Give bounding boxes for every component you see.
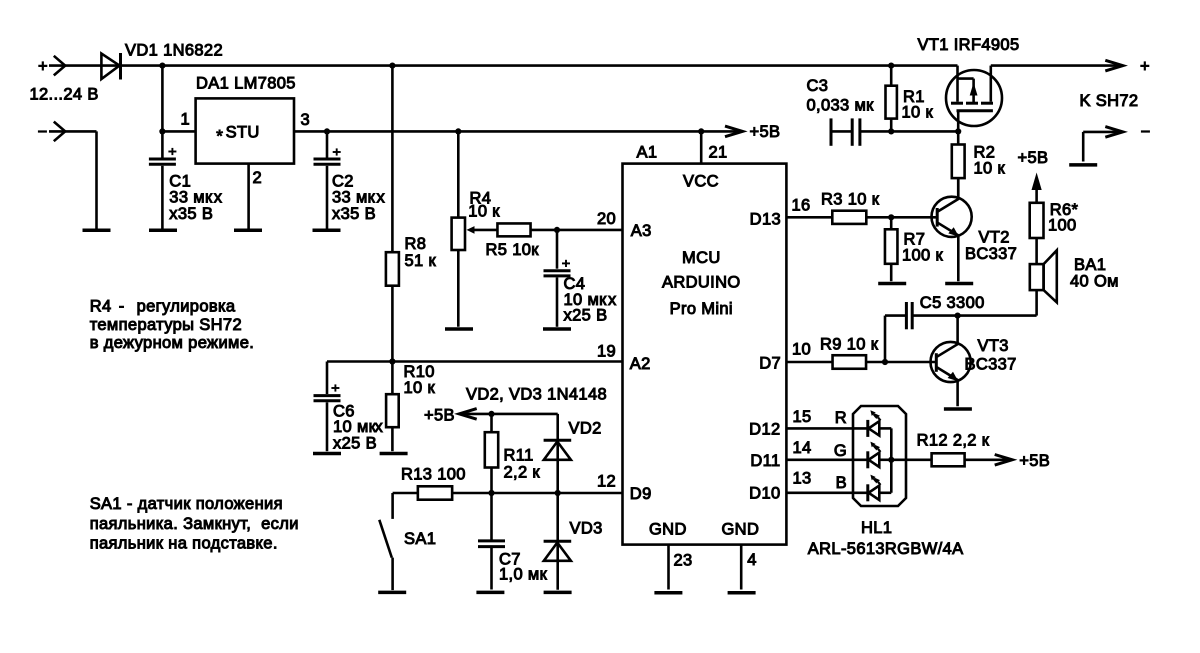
svg-text:D9: D9 <box>630 485 652 503</box>
svg-text:+: + <box>38 58 48 76</box>
svg-text:+5В: +5В <box>424 406 455 424</box>
svg-text:+5В: +5В <box>750 123 781 141</box>
svg-text:х: х <box>608 291 617 309</box>
svg-text:х25 В: х25 В <box>564 307 608 325</box>
svg-text:D11: D11 <box>750 452 780 470</box>
svg-text:A2: A2 <box>630 355 651 373</box>
svg-text:R13 100: R13 100 <box>401 466 466 484</box>
svg-text:BA1: BA1 <box>1074 256 1106 274</box>
svg-text:10: 10 <box>792 341 811 359</box>
svg-text:DA1 LM7805: DA1 LM7805 <box>196 75 296 93</box>
svg-text:температуры SH72: температуры SH72 <box>90 316 242 334</box>
svg-text:+5В: +5В <box>1018 149 1049 167</box>
svg-text:G: G <box>834 442 847 460</box>
svg-text:D10: D10 <box>749 485 780 503</box>
svg-text:STU: STU <box>226 124 260 142</box>
svg-text:VT3: VT3 <box>978 337 1009 355</box>
svg-text:100 к: 100 к <box>902 246 944 264</box>
svg-text:12: 12 <box>597 472 616 490</box>
svg-text:VD2: VD2 <box>569 420 602 438</box>
svg-text:A1: A1 <box>637 144 658 162</box>
svg-text:13: 13 <box>793 470 812 488</box>
svg-text:4: 4 <box>747 551 757 569</box>
svg-text:+: + <box>1140 58 1150 76</box>
svg-text:VT2: VT2 <box>979 229 1010 247</box>
svg-text:33 мк: 33 мк <box>332 189 376 207</box>
svg-text:VCC: VCC <box>683 173 719 191</box>
svg-text:х: х <box>375 418 384 436</box>
svg-text:+5В: +5В <box>1019 452 1050 470</box>
svg-text:R3 10 к: R3 10 к <box>821 190 880 208</box>
svg-text:K SH72: K SH72 <box>1080 92 1139 110</box>
svg-text:х25 В: х25 В <box>333 434 377 452</box>
svg-text:0,033 мк: 0,033 мк <box>807 97 875 115</box>
svg-text:VD1 1N6822: VD1 1N6822 <box>125 41 223 59</box>
svg-text:MCU: MCU <box>682 249 721 267</box>
svg-text:GND: GND <box>649 521 687 539</box>
svg-text:SA1 - датчик положения: SA1 - датчик положения <box>90 495 283 513</box>
svg-text:х: х <box>377 189 386 207</box>
svg-text:10 к: 10 к <box>468 202 500 220</box>
svg-text:GND: GND <box>722 521 760 539</box>
svg-text:BC337: BC337 <box>965 356 1017 374</box>
svg-text:2: 2 <box>253 169 263 187</box>
svg-text:HL1: HL1 <box>861 519 892 537</box>
svg-text:1,0 мк: 1,0 мк <box>499 566 548 584</box>
svg-text:R12 2,2 к: R12 2,2 к <box>917 432 990 450</box>
svg-text:20: 20 <box>597 210 616 228</box>
svg-text:ARDUINO: ARDUINO <box>662 274 741 292</box>
svg-text:B: B <box>836 474 847 492</box>
svg-text:-: - <box>119 298 125 316</box>
svg-text:3: 3 <box>301 111 311 129</box>
svg-text:R8: R8 <box>405 235 427 253</box>
svg-text:10 к: 10 к <box>902 104 934 122</box>
svg-text:Pro Mini: Pro Mini <box>670 300 733 318</box>
svg-text:R11: R11 <box>504 446 534 464</box>
svg-text:SA1: SA1 <box>404 530 436 548</box>
svg-text:14: 14 <box>793 439 812 457</box>
svg-text:1: 1 <box>180 110 190 128</box>
svg-text:16: 16 <box>792 197 811 215</box>
svg-text:10 мк: 10 мк <box>333 418 377 436</box>
svg-text:*: * <box>216 127 223 146</box>
svg-text:21: 21 <box>709 144 728 162</box>
svg-text:C5 3300: C5 3300 <box>920 294 985 312</box>
svg-text:х35 В: х35 В <box>332 205 376 223</box>
svg-text:10 к: 10 к <box>974 160 1006 178</box>
svg-text:х35 В: х35 В <box>169 205 213 223</box>
svg-text:паяльник на подставке.: паяльник на подставке. <box>90 535 278 553</box>
svg-text:D13: D13 <box>750 211 781 229</box>
svg-text:в дежурном режиме.: в дежурном режиме. <box>90 334 254 352</box>
svg-text:ARL-5613RGBW/4A: ARL-5613RGBW/4A <box>808 540 964 558</box>
svg-text:D7: D7 <box>759 355 781 373</box>
svg-text:VD2, VD3 1N4148: VD2, VD3 1N4148 <box>466 385 607 403</box>
svg-text:R5 10к: R5 10к <box>486 241 540 259</box>
svg-text:R9 10 к: R9 10 к <box>820 336 879 354</box>
svg-text:2,2 к: 2,2 к <box>504 463 541 481</box>
svg-text:−: − <box>1141 123 1151 141</box>
svg-text:−: − <box>38 123 48 141</box>
svg-text:C3: C3 <box>807 77 829 95</box>
svg-text:23: 23 <box>674 552 693 570</box>
svg-text:15: 15 <box>793 408 812 426</box>
svg-text:R: R <box>835 409 847 427</box>
svg-text:12...24 В: 12...24 В <box>30 86 99 104</box>
svg-text:VT1 IRF4905: VT1 IRF4905 <box>918 36 1020 54</box>
svg-text:паяльника. Замкнут, если: паяльника. Замкнут, если <box>90 515 299 533</box>
svg-text:40 Ом: 40 Ом <box>1070 272 1119 290</box>
svg-text:VD3: VD3 <box>570 519 603 537</box>
svg-text:100: 100 <box>1048 216 1077 234</box>
svg-text:х: х <box>214 189 223 207</box>
svg-text:19: 19 <box>597 342 616 360</box>
svg-text:10 к: 10 к <box>404 379 436 397</box>
svg-text:D12: D12 <box>749 420 780 438</box>
svg-text:R4: R4 <box>90 298 112 316</box>
svg-text:BC337: BC337 <box>965 245 1017 263</box>
svg-text:регулировка: регулировка <box>137 298 236 316</box>
svg-text:A3: A3 <box>631 222 652 240</box>
svg-text:51 к: 51 к <box>405 252 437 270</box>
